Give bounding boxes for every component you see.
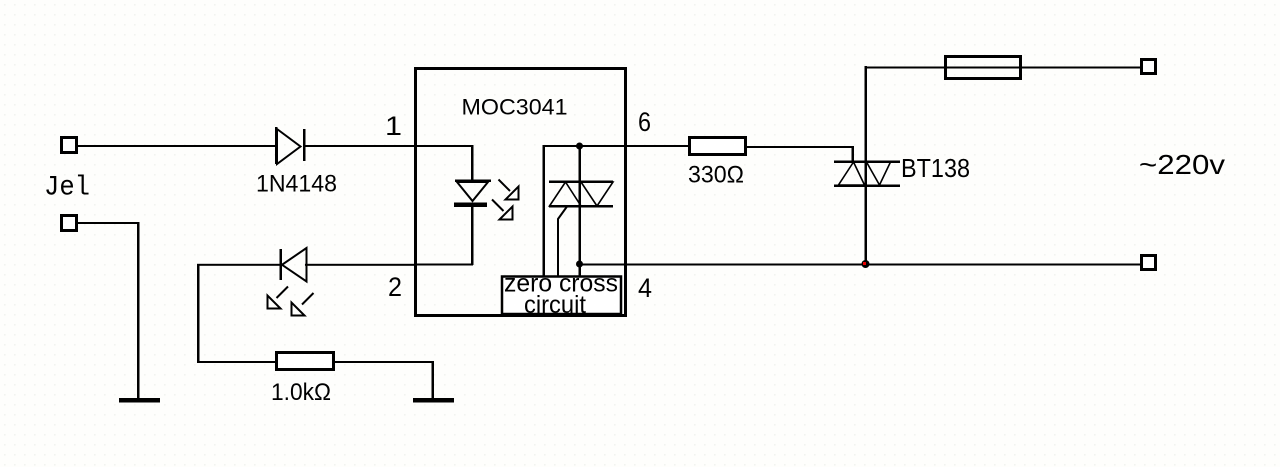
label ~220v: [1139, 149, 1225, 180]
label zero cross: [504, 270, 618, 298]
svg-text:4: 4: [638, 273, 652, 303]
wire D1 to pin 1: [305, 145, 415, 147]
pin 1 label: [385, 111, 402, 141]
wire LED1 cathode to pin 2: [415, 206, 474, 266]
LED LED1 inside U1: [454, 180, 491, 208]
wire TR2 MT2 up to fuse row: [865, 66, 868, 186]
svg-text:circuit: circuit: [524, 291, 586, 319]
LED arrows of D2: [268, 287, 289, 309]
terminal T3: [1142, 60, 1156, 74]
wire pin 4 bottom row: [580, 264, 1142, 266]
pin 6 label: [638, 107, 651, 137]
resistor R2: [277, 353, 334, 370]
wire fuse row: [865, 67, 1142, 69]
junction dot with red center: [862, 260, 870, 268]
svg-text:1N4148: 1N4148: [256, 171, 337, 198]
svg-text:MOC3041: MOC3041: [462, 95, 568, 120]
wire TR1 gate: [558, 207, 567, 277]
wire D2 to pin 2: [305, 264, 415, 266]
pin 2 label: [388, 272, 402, 302]
fuse F1: [946, 57, 1021, 79]
wire triac TR1 MT2 lead: [579, 146, 582, 208]
label 1.0k ohm: [271, 379, 331, 406]
label MOC3041: [462, 95, 568, 120]
optocoupler U1 box MOC3041: [416, 69, 626, 316]
wire pin 6 row inside U1: [543, 145, 628, 276]
triac TR1 inside U1: [549, 181, 613, 208]
wire T2 right: [77, 222, 139, 224]
terminal T4: [1142, 256, 1156, 270]
wire TR1 MT1 lead: [579, 207, 582, 264]
wire LED1 anode: [415, 145, 474, 181]
resistor R1 330: [690, 138, 746, 155]
pin 4 label: [638, 273, 652, 303]
terminal T1: [62, 138, 77, 153]
svg-text:BT138: BT138: [901, 153, 970, 183]
wire R2 row: [197, 361, 277, 363]
label 1N4148: [256, 171, 337, 198]
wire R2 to ground G2: [334, 361, 434, 399]
diode D1 1N4148: [275, 127, 306, 164]
node label Jel: [44, 173, 90, 204]
wire corner to D2: [197, 264, 280, 363]
svg-text:1.0kΩ: 1.0kΩ: [271, 379, 331, 406]
wire dot to zero cross box: [579, 264, 582, 276]
svg-text:2: 2: [388, 272, 402, 302]
label BT138: [901, 153, 970, 183]
svg-text:~220v: ~220v: [1139, 149, 1225, 180]
svg-text:330Ω: 330Ω: [688, 162, 744, 189]
svg-text:6: 6: [638, 107, 651, 137]
wire T1 to D1: [77, 145, 276, 147]
wire down to ground G1: [137, 222, 140, 399]
svg-text:Jel: Jel: [44, 173, 90, 204]
triac TR2 BT138: [834, 161, 900, 188]
ground G1: [119, 398, 160, 403]
label 330 ohm: [688, 162, 744, 189]
svg-text:1: 1: [385, 111, 402, 141]
diode D2: [280, 248, 307, 282]
wire TR2 MT1 down to bottom row: [865, 184, 868, 264]
junction dot pin6: [576, 143, 583, 150]
terminal T2: [62, 216, 77, 231]
zero cross circuit box: [502, 277, 621, 315]
ground G2: [413, 398, 454, 403]
wire R1 to gate of TR2: [746, 146, 854, 162]
junction dot pin4: [576, 261, 583, 268]
LED arrows of LED1: [499, 180, 519, 200]
wire pin 6 to R1: [580, 145, 690, 147]
label circuit: [524, 291, 586, 319]
